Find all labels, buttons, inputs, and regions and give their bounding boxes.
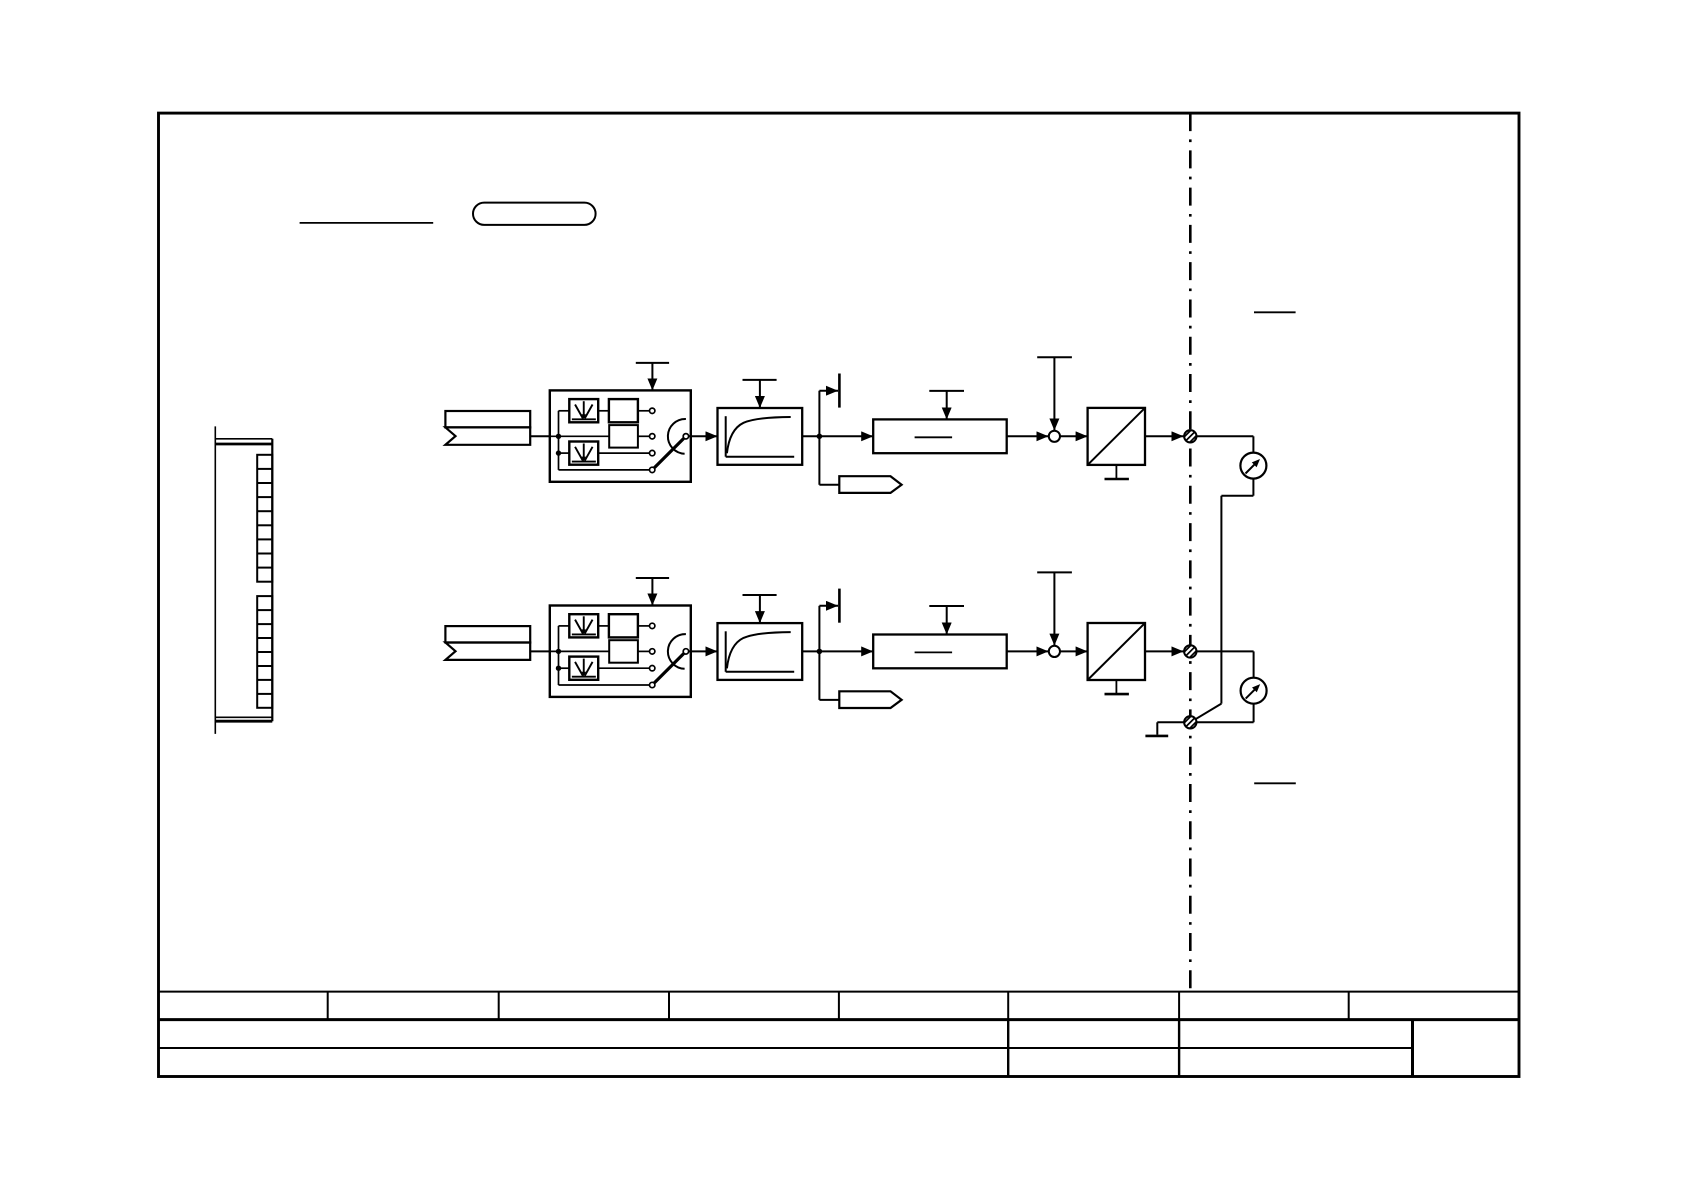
cross reference underline top — [1254, 311, 1296, 313]
channel 1 meter wiring — [1190, 436, 1253, 722]
title block lower dividers — [1008, 1020, 1412, 1077]
function diagram pill — [473, 203, 596, 225]
voltmeter channel 2 — [1241, 678, 1267, 704]
voltmeter channel 1 — [1240, 453, 1266, 479]
channel 2 row — [445, 572, 1196, 708]
terminal strip group 1 — [257, 455, 272, 582]
title block row2 bottom — [159, 1047, 1413, 1049]
reference ground wiring — [1145, 722, 1190, 736]
title block row1 dividers — [328, 992, 1349, 1020]
title block top — [159, 991, 1520, 993]
terminal module right edge — [271, 439, 273, 721]
cross reference underline bottom — [1254, 782, 1296, 784]
channel 1 row — [445, 357, 1196, 493]
channel 2 meter wiring — [1190, 651, 1253, 722]
terminal strip group 2 — [257, 596, 272, 708]
drawing frame — [159, 113, 1520, 1076]
terminal module rail — [214, 426, 216, 734]
title block row1 bottom — [159, 1018, 1520, 1021]
common return terminal — [1184, 716, 1196, 728]
terminal module top bar — [215, 438, 272, 440]
cabinet boundary dash-dot line — [1189, 113, 1192, 988]
heading underline — [300, 222, 434, 224]
terminal module bottom bar — [215, 716, 272, 718]
